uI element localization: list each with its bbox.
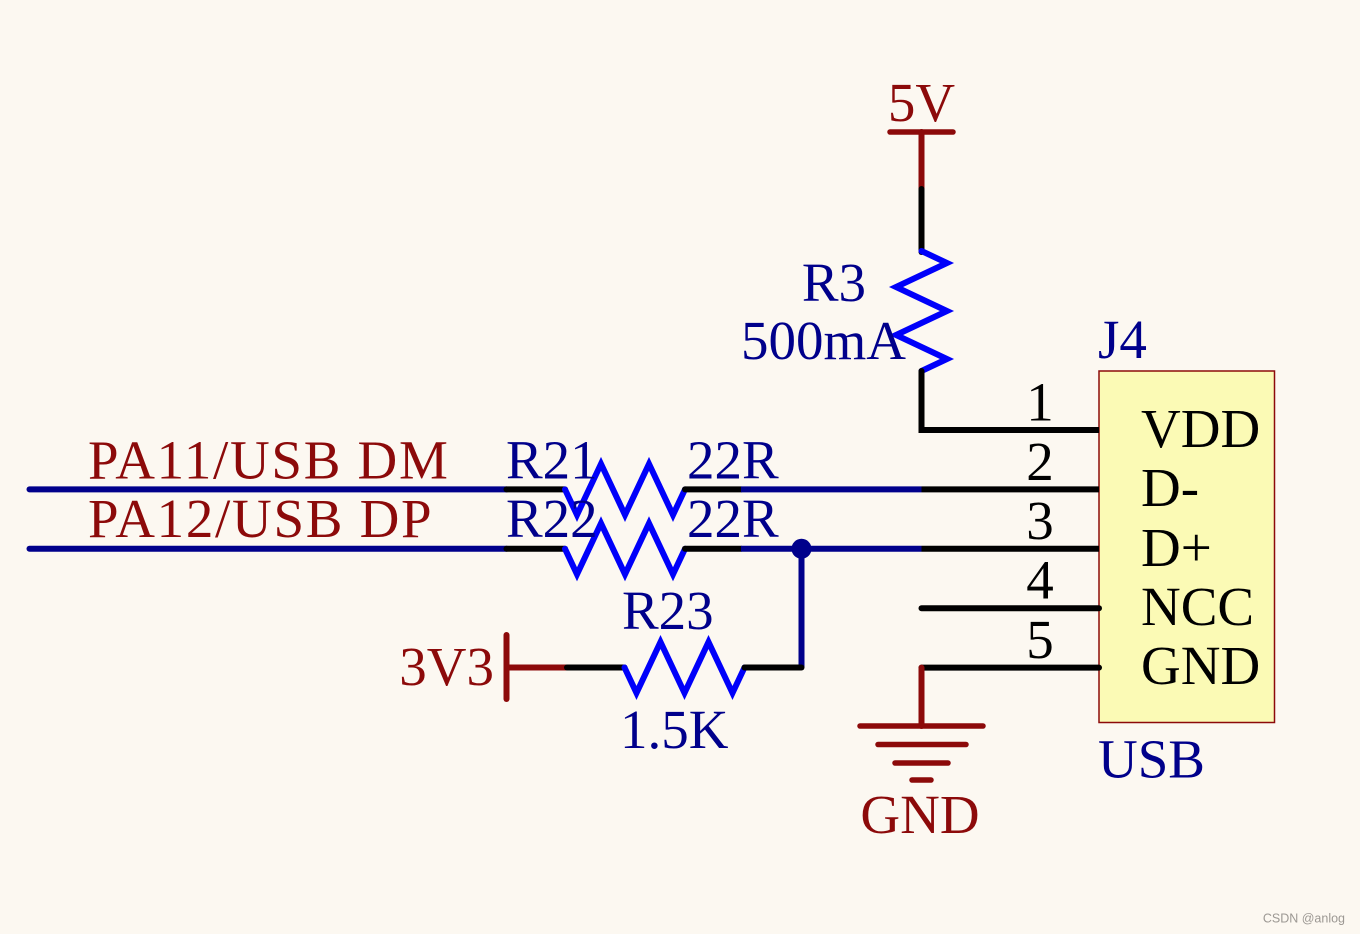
wire R3 to pin 1: [922, 371, 1100, 430]
power port 5V: [888, 72, 956, 191]
svg-text:5V: 5V: [888, 72, 956, 133]
resistor R23: [567, 580, 802, 760]
junction node on D+: [792, 539, 812, 559]
svg-text:CSDN @anlog: CSDN @anlog: [1263, 912, 1345, 926]
svg-text:GND: GND: [860, 784, 979, 845]
svg-text:USB: USB: [1098, 729, 1205, 790]
svg-text:NCC: NCC: [1141, 576, 1254, 637]
resistor R21: [506, 430, 779, 515]
svg-text:J4: J4: [1098, 309, 1147, 370]
svg-text:D-: D-: [1141, 457, 1199, 518]
svg-text:R22: R22: [506, 488, 598, 549]
pin 4 stub: [922, 605, 1100, 611]
pin 5 stub: [922, 665, 1100, 671]
svg-text:R21: R21: [506, 430, 598, 491]
svg-text:VDD: VDD: [1141, 398, 1260, 459]
svg-text:PA11/USB DM: PA11/USB DM: [88, 430, 450, 491]
wire R22 to pin 3: [741, 546, 922, 552]
pin 1 stub: [922, 427, 1100, 433]
svg-text:22R: 22R: [687, 488, 779, 549]
wire 5V to R3: [919, 189, 925, 252]
svg-text:3: 3: [1026, 490, 1054, 551]
svg-text:GND: GND: [1141, 635, 1260, 696]
svg-text:3V3: 3V3: [399, 636, 494, 697]
wire PA11/USB_DM net: [30, 486, 507, 492]
resistor R3: [741, 251, 947, 371]
power port 3V3: [399, 635, 567, 699]
svg-text:22R: 22R: [687, 430, 779, 491]
svg-text:1.5K: 1.5K: [620, 699, 729, 760]
svg-text:500mA: 500mA: [741, 310, 906, 371]
svg-text:R3: R3: [802, 252, 866, 313]
pin 3 stub: [922, 546, 1100, 552]
wire R21 to pin 2: [741, 486, 922, 492]
wire pin 5 to ground: [919, 668, 925, 726]
resistor R22: [506, 488, 779, 574]
svg-text:1: 1: [1026, 371, 1054, 432]
svg-text:D+: D+: [1141, 517, 1212, 578]
wire PA12/USB_DP net: [30, 546, 507, 552]
svg-text:5: 5: [1026, 609, 1054, 670]
svg-text:PA12/USB DP: PA12/USB DP: [88, 488, 433, 549]
pin 2 stub: [922, 486, 1100, 492]
svg-text:4: 4: [1026, 550, 1054, 611]
connector J4 body: [1099, 371, 1275, 723]
wire junction down to R23: [799, 549, 805, 668]
svg-text:2: 2: [1026, 431, 1054, 492]
svg-text:R23: R23: [622, 580, 714, 641]
ground GND: [860, 726, 983, 845]
